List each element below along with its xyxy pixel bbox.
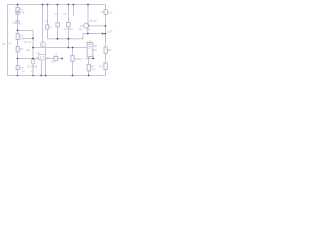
junction dots	[17, 4, 107, 77]
svg-text:C1: C1	[55, 12, 59, 16]
svg-text:R3: R3	[20, 47, 24, 51]
wire branch x88.6 to rail	[88, 57, 90, 76]
wire main y47.5	[33, 47, 87, 49]
svg-text:R9: R9	[99, 64, 103, 68]
wire branch x47.5	[47, 5, 49, 39]
svg-text:B1: B1	[2, 42, 6, 46]
wire branch x68.4	[67, 5, 69, 48]
svg-text:Q2: Q2	[26, 48, 30, 52]
wire horizontal y30.4	[18, 29, 34, 31]
svg-text:R6: R6	[79, 28, 83, 32]
svg-text:BC547: BC547	[90, 19, 98, 23]
resistor R8	[104, 47, 107, 53]
wire collector Q2 x42.5	[42, 5, 44, 43]
wire crystal lower pin x41.3	[40, 60, 42, 76]
wire collector Q1 x88	[87, 5, 89, 24]
svg-text:4M: 4M	[46, 56, 50, 60]
svg-text:10k: 10k	[86, 28, 91, 32]
wire right edge	[104, 5, 106, 76]
svg-text:C2: C2	[63, 12, 67, 16]
wire low y58.5	[18, 58, 63, 60]
wire emitter Q1 x87.8	[87, 28, 89, 33]
svg-text:D1: D1	[101, 10, 105, 14]
wire branch x72.5 to rail	[72, 48, 74, 76]
svg-text:470: 470	[91, 68, 96, 72]
wire bottom rail	[8, 75, 106, 77]
output arrow	[102, 32, 105, 35]
crystal X1 pink	[39, 55, 46, 60]
wire branch x57.5	[57, 5, 59, 39]
capacitor C1	[56, 23, 59, 27]
wire feedback y38.8	[48, 34, 106, 39]
relay LS1	[87, 43, 93, 57]
resistor R3	[16, 46, 19, 52]
svg-text:R4 1k: R4 1k	[24, 40, 31, 44]
svg-text:9V: 9V	[8, 42, 12, 46]
svg-text:LS1: LS1	[87, 39, 92, 43]
svg-text:1u: 1u	[19, 21, 23, 25]
wire branch x33	[32, 30, 34, 75]
wire branch x17.5	[17, 5, 19, 76]
svg-text:C4: C4	[12, 21, 16, 25]
svg-text:OUT: OUT	[107, 30, 113, 34]
resistor R7	[87, 64, 90, 71]
svg-text:22n: 22n	[69, 27, 74, 31]
wire relay pin drop	[92, 57, 94, 59]
svg-text:10u: 10u	[51, 60, 56, 64]
diode D2 pink	[31, 60, 34, 64]
resistor R2	[16, 34, 19, 40]
svg-text:X1: X1	[37, 51, 41, 55]
capacitor C4	[15, 21, 19, 23]
svg-text:1n: 1n	[31, 69, 34, 73]
svg-text:C3: C3	[45, 19, 49, 23]
svg-text:1n: 1n	[49, 25, 52, 29]
wire relay bottom stub	[86, 58, 94, 60]
svg-text:1n: 1n	[22, 69, 25, 73]
svg-text:SP: SP	[94, 44, 98, 48]
capacitor C3	[46, 25, 49, 29]
capacitor C2	[67, 22, 70, 27]
wire left edge	[7, 5, 9, 76]
capacitor C5	[16, 66, 19, 70]
svg-text:D2 4148: D2 4148	[27, 65, 37, 69]
resistor R1	[16, 7, 19, 14]
resistor R9	[104, 63, 107, 70]
svg-text:8R: 8R	[94, 48, 97, 52]
transistor Q2 pink	[40, 42, 45, 47]
svg-text:5V1: 5V1	[108, 10, 113, 14]
wire emitter Q2 x45.5	[45, 47, 47, 76]
svg-text:47k: 47k	[20, 11, 25, 15]
wire stub y38.4	[24, 37, 33, 39]
resistor R5	[71, 55, 74, 61]
wire top rail	[8, 4, 106, 6]
svg-text:10n: 10n	[78, 57, 83, 61]
svg-text:R8: R8	[108, 48, 112, 52]
diode D1 green	[104, 10, 107, 15]
svg-text:L1: L1	[54, 53, 57, 57]
wire base Q1 y25.9	[89, 25, 106, 27]
svg-text:1k: 1k	[35, 56, 38, 59]
wire stub x73.4	[72, 5, 74, 16]
svg-text:Q1: Q1	[80, 24, 84, 28]
transistor Q1	[84, 23, 89, 28]
box RV1 on y58.5	[54, 56, 58, 60]
